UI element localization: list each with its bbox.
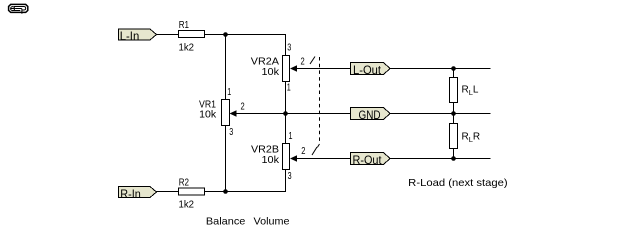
svg-text:1: 1 — [227, 87, 231, 98]
svg-text:1k2: 1k2 — [179, 42, 195, 53]
svg-text:3: 3 — [287, 43, 291, 54]
VR2A wiper arrowhead — [290, 65, 297, 71]
resistor R2 — [179, 188, 205, 195]
wire RLL to GND rail — [453, 103, 455, 114]
wire R-In to R2 — [157, 191, 179, 193]
svg-text:2: 2 — [241, 102, 246, 113]
svg-text:10k: 10k — [199, 110, 217, 121]
svg-text:L-Out: L-Out — [353, 63, 382, 77]
svg-text:R-In: R-In — [120, 187, 141, 201]
wire right load rail top — [453, 69, 455, 78]
svg-text:L-In: L-In — [120, 29, 140, 43]
svg-text:R1: R1 — [179, 20, 190, 31]
svg-text:R2: R2 — [179, 177, 190, 188]
wire left vertical junction to VR1 pin1 — [225, 35, 227, 101]
VR2B wiper arrowhead — [290, 155, 297, 161]
svg-text:3: 3 — [229, 127, 233, 138]
svg-text:R-Out: R-Out — [353, 153, 383, 167]
wire GND node to GND tag — [286, 113, 351, 115]
svg-text:VR2B: VR2B — [251, 145, 279, 156]
node junction GND center — [283, 111, 288, 116]
wire RLR to R-Out rail — [453, 149, 455, 159]
svg-text:1: 1 — [287, 83, 291, 94]
wire L-In to R1 — [157, 34, 179, 36]
resistor RL-L body — [450, 78, 458, 103]
tag R-Out — [351, 153, 391, 168]
potentiometer VR2B body — [283, 144, 290, 170]
tag GND — [351, 108, 391, 123]
svg-text:10k: 10k — [262, 67, 281, 78]
wire VR2A pin1 to VR2B pin1 — [285, 82, 287, 144]
wire VR2A wiper to L-Out tag — [296, 68, 351, 70]
tag R-In — [119, 187, 157, 202]
svg-text:GND: GND — [359, 108, 381, 122]
svg-text:3: 3 — [288, 171, 292, 182]
tag L-Out — [351, 63, 391, 78]
node junction L top — [223, 32, 228, 37]
wire R2 to VR2B pin3 — [205, 170, 287, 192]
wire L-Out tag to load — [390, 68, 491, 70]
gang dashed line VR2A-VR2B — [310, 57, 320, 156]
wire GND tag to load — [390, 113, 491, 115]
potentiometer VR2A body — [283, 56, 290, 82]
VR2B wiper slash — [312, 147, 317, 155]
svg-text:R-Load (next stage): R-Load (next stage) — [408, 177, 508, 189]
ESP logo — [9, 4, 28, 13]
node junction load top — [451, 66, 456, 71]
potentiometer VR1 body — [222, 100, 230, 126]
resistor RL-R body — [450, 124, 458, 149]
VR2A wiper slash — [310, 57, 315, 65]
node junction load mid — [451, 111, 456, 116]
VR1 wiper arrowhead — [230, 110, 237, 116]
node junction load bottom — [451, 156, 456, 161]
wire R1 to VR2A pin3 — [205, 35, 287, 57]
node junction bottom — [223, 189, 228, 194]
svg-text:2: 2 — [301, 57, 306, 68]
wire R-Out tag to load — [390, 158, 491, 160]
wire GND rail to RLR — [453, 114, 455, 124]
wire VR1 pin3 to bottom rail — [225, 126, 227, 192]
svg-text:2: 2 — [301, 146, 306, 157]
resistor R1 — [179, 31, 205, 38]
svg-text:1: 1 — [289, 131, 293, 142]
svg-text:Balance: Balance — [206, 216, 246, 228]
svg-text:10k: 10k — [262, 155, 281, 166]
svg-text:Volume: Volume — [254, 216, 290, 228]
tag L-In — [119, 29, 157, 43]
svg-text:1k2: 1k2 — [179, 200, 195, 211]
wire VR2B wiper to R-Out tag — [296, 158, 351, 160]
wire VR1 wiper to GND node — [236, 113, 286, 115]
